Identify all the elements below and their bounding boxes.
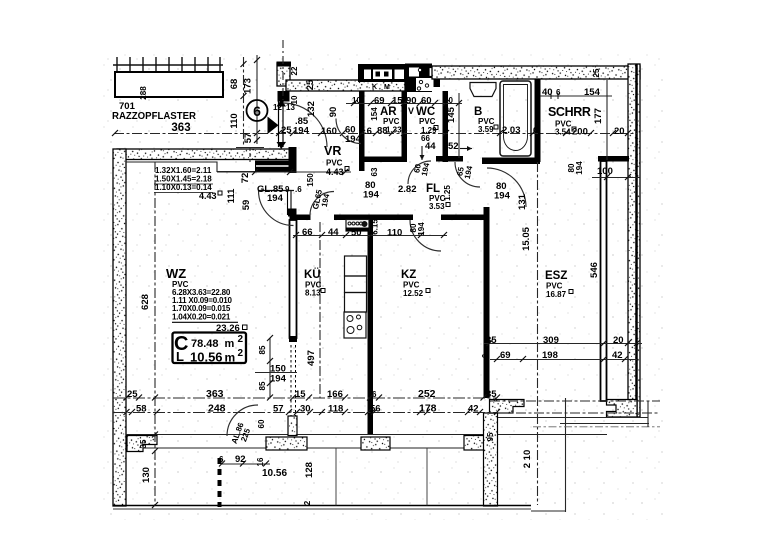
svg-text:35: 35 (486, 335, 497, 346)
svg-text:252: 252 (418, 388, 436, 400)
svg-text:110: 110 (387, 228, 402, 239)
svg-text:25: 25 (281, 125, 292, 136)
svg-text:3.53: 3.53 (429, 202, 445, 211)
dim chain y103 AR/WC (346, 103, 462, 105)
FIXTURES (344, 81, 531, 338)
VR dim y172 (217, 171, 351, 173)
svg-text:68: 68 (229, 79, 240, 90)
vert dim x320 KU (319, 222, 321, 398)
exterior wall left (113, 149, 126, 506)
svg-text:95: 95 (486, 432, 495, 441)
ESZ south pier right (607, 400, 638, 418)
svg-text:132: 132 (306, 101, 317, 117)
exterior wall north B/SCHRR (432, 66, 640, 79)
svg-text:10: 10 (352, 96, 361, 105)
door arc GL85 WZ (259, 191, 294, 226)
vert dim x270 WZ window (269, 338, 271, 398)
wall KZ north seg (441, 215, 490, 221)
svg-text:52: 52 (448, 141, 459, 152)
shaft block WC (405, 64, 432, 93)
svg-text:35: 35 (139, 439, 148, 448)
FL small dims arrows (421, 146, 423, 160)
svg-text:8.13: 8.13 (305, 289, 321, 298)
svg-text:194: 194 (494, 191, 511, 202)
svg-text:100: 100 (597, 166, 613, 177)
wall AR/WC (402, 91, 408, 162)
svg-text:44: 44 (328, 227, 339, 238)
svg-text:497: 497 (306, 350, 317, 366)
washbasin B (470, 83, 496, 97)
WZ window dim y372.5 (255, 372, 297, 374)
svg-text:16: 16 (256, 457, 265, 466)
svg-text:173: 173 (243, 78, 254, 94)
svg-text:m: m (225, 338, 235, 350)
svg-text:154: 154 (584, 87, 601, 98)
svg-text:194: 194 (575, 161, 584, 175)
svg-text:K M: K M (372, 84, 392, 91)
pier P1 (127, 436, 157, 452)
svg-text:628: 628 (140, 294, 151, 310)
svg-text:194: 194 (345, 134, 362, 145)
VR/WZ step thin lines (126, 162, 255, 172)
wall VR below GL85 (288, 191, 292, 215)
svg-text:6: 6 (481, 353, 490, 358)
svg-text:90: 90 (406, 96, 417, 107)
svg-text:2.03: 2.03 (502, 125, 521, 136)
svg-text:50: 50 (351, 228, 362, 239)
svg-text:63: 63 (370, 167, 379, 176)
svg-text:60: 60 (421, 96, 432, 107)
svg-text:6: 6 (444, 126, 449, 135)
svg-text:6: 6 (253, 103, 261, 119)
svg-text:15.05: 15.05 (521, 226, 532, 250)
svg-text:150: 150 (306, 173, 315, 187)
svg-text:4.43: 4.43 (199, 191, 217, 201)
exterior wall WZ north (117, 149, 291, 160)
svg-text:2: 2 (303, 500, 312, 505)
vert dim x155 left (154, 162, 156, 505)
entrance door leaf (279, 102, 284, 148)
GL85 door leaf (258, 190, 294, 192)
svg-text:VR: VR (324, 144, 341, 158)
svg-text:72: 72 (240, 173, 251, 184)
ARCS (227, 100, 526, 437)
svg-text:15: 15 (295, 389, 306, 400)
svg-text:248: 248 (208, 403, 226, 415)
loggia dividers (335, 448, 337, 506)
svg-text:3.54: 3.54 (555, 128, 571, 137)
svg-text:309: 309 (543, 335, 559, 346)
svg-text:V: V (408, 106, 414, 116)
svg-text:194: 194 (270, 374, 287, 385)
C/L area box (173, 333, 247, 364)
svg-text:.6: .6 (364, 126, 372, 137)
svg-text:78.48: 78.48 (191, 338, 219, 350)
svg-text:57: 57 (273, 404, 284, 415)
cooktop (344, 312, 366, 338)
svg-text:110: 110 (229, 113, 240, 128)
dim chain y235 KU (293, 235, 447, 237)
entrance jog wall vertical (277, 63, 290, 86)
pier P4 (464, 436, 497, 451)
terrace railing (113, 57, 223, 72)
svg-text:160: 160 (321, 126, 337, 137)
loggia dashed partition (218, 458, 222, 507)
vert dim x243 (68/110) (243, 57, 245, 148)
svg-text:10.56: 10.56 (262, 468, 287, 479)
svg-text:6: 6 (219, 455, 224, 464)
wall WC right (443, 91, 449, 162)
door post loggia (288, 416, 297, 436)
svg-text:25: 25 (305, 79, 316, 90)
svg-text:20: 20 (614, 126, 625, 137)
wall KU/KZ (368, 220, 374, 435)
ESZ south pier left (490, 400, 525, 414)
svg-text:69: 69 (500, 350, 511, 361)
svg-text:128: 128 (304, 462, 315, 478)
svg-text:12: 12 (273, 103, 282, 112)
svg-text:200: 200 (572, 127, 588, 138)
svg-text:15: 15 (392, 96, 403, 107)
svg-text:92: 92 (235, 454, 246, 465)
svg-text:58: 58 (136, 404, 147, 415)
kitchen cabinet 3 (345, 293, 367, 313)
svg-text:66: 66 (302, 227, 313, 238)
svg-text:35: 35 (486, 389, 497, 400)
svg-text:6: 6 (372, 390, 377, 399)
door arc loggia AL86 (227, 405, 258, 436)
svg-text:ESZ: ESZ (545, 270, 567, 282)
svg-text:90: 90 (328, 107, 339, 118)
svg-text:194: 194 (293, 126, 310, 137)
svg-text:40: 40 (542, 87, 553, 98)
svg-text:154: 154 (370, 107, 379, 121)
svg-text:2: 2 (238, 334, 244, 345)
svg-text:85: 85 (258, 381, 267, 390)
svg-text:22: 22 (290, 66, 299, 75)
svg-text:130: 130 (141, 467, 152, 483)
door arc GL65 VR-FL (310, 192, 334, 216)
svg-text:363: 363 (171, 122, 190, 134)
svg-text:10.56: 10.56 (190, 350, 223, 365)
bathtub B (500, 81, 531, 156)
svg-text:3.59: 3.59 (478, 125, 494, 134)
wall WZ/KU glazed partition (290, 220, 297, 338)
svg-text:546: 546 (589, 262, 600, 278)
svg-text:6: 6 (556, 88, 561, 97)
svg-text:1.33: 1.33 (386, 126, 402, 135)
svg-text:m: m (225, 351, 236, 365)
terrace planter box (115, 72, 223, 97)
exterior wall right (628, 64, 640, 417)
svg-text:25: 25 (127, 389, 138, 400)
svg-text:2 10: 2 10 (522, 450, 533, 469)
entrance jog wall horizontal K M band (286, 80, 405, 91)
svg-text:4.43: 4.43 (326, 167, 344, 177)
door arc WC (408, 161, 431, 184)
svg-text:SCHRR: SCHRR (548, 105, 591, 119)
svg-text:PVC: PVC (419, 117, 436, 126)
svg-text:59: 59 (241, 200, 252, 211)
door arc KZ (410, 220, 441, 251)
door arc ESZ (487, 168, 526, 207)
svg-text:25: 25 (592, 68, 601, 77)
svg-text:194: 194 (267, 193, 284, 204)
vert line ESZ axis x537.5 (537, 162, 539, 505)
wall ESZ right (601, 161, 607, 401)
svg-text:.6: .6 (295, 185, 302, 194)
entry axis dash (282, 40, 284, 100)
svg-text:166: 166 (327, 389, 343, 400)
loggia bottom edge (113, 505, 531, 507)
WZ/VR window band (255, 161, 290, 173)
THINLINES (112, 40, 660, 512)
vert dim x257 (173/57) (256, 55, 258, 144)
svg-text:6.15: 6.15 (371, 219, 380, 235)
WZ/VR corner blob (289, 147, 297, 173)
vert line x565.5 bottom right (565, 398, 567, 512)
svg-text:KZ: KZ (401, 269, 416, 281)
svg-text:42: 42 (468, 404, 479, 415)
svg-text:42: 42 (612, 350, 623, 361)
loggia right wall (484, 413, 498, 506)
svg-text:KÜ: KÜ (304, 268, 321, 281)
svg-text:194: 194 (417, 222, 426, 236)
svg-text:RAZZOPFLASTER: RAZZOPFLASTER (112, 111, 197, 122)
svg-text:198: 198 (542, 350, 558, 361)
dim chain y133 main (114, 133, 637, 135)
svg-text:20: 20 (613, 335, 624, 346)
svg-text:56: 56 (370, 404, 381, 415)
svg-text:2: 2 (238, 348, 244, 359)
ESZ dim y343.5 (484, 343, 642, 345)
terrace bottom lines (490, 400, 660, 402)
entrance swing arc (283, 103, 327, 147)
entrance arrow (268, 117, 279, 135)
svg-text:1.04X0.20=0.021: 1.04X0.20=0.021 (172, 312, 231, 321)
kitchen cabinet 2 (345, 276, 367, 293)
kitchen cabinet 1 (345, 256, 367, 276)
svg-text:288: 288 (139, 86, 148, 100)
svg-text:145: 145 (446, 106, 457, 123)
svg-text:10: 10 (290, 95, 299, 104)
window wall WZ/KZ south lines (126, 434, 607, 436)
svg-text:111: 111 (226, 188, 237, 204)
dim 100 line y177.5 (592, 177, 640, 179)
WALLS (113, 57, 640, 509)
svg-text:30: 30 (300, 404, 311, 415)
svg-text:85: 85 (258, 345, 267, 354)
svg-text:178: 178 (419, 403, 437, 415)
wall B south (482, 158, 540, 165)
svg-text:1.25: 1.25 (443, 185, 452, 201)
svg-text:194: 194 (363, 190, 380, 201)
wall FL north under WC-B (436, 156, 463, 162)
svg-text:177: 177 (593, 108, 604, 124)
svg-text:L: L (176, 349, 184, 364)
entrance circle 6 (247, 100, 268, 121)
dim line 363 ticks (112, 130, 631, 136)
pier P2 (266, 437, 307, 450)
bottom dim row2 y412.5 (113, 412, 497, 414)
loggia dim y464 (222, 463, 270, 465)
wall KU north seg1 (290, 215, 311, 221)
svg-text:12.52: 12.52 (403, 289, 424, 298)
svg-text:118: 118 (328, 404, 343, 415)
svg-text:363: 363 (206, 388, 224, 400)
ESZ dim y359 (490, 359, 637, 361)
svg-text:60: 60 (257, 419, 266, 428)
wall B/SCHRR (535, 79, 541, 162)
pier P3 (361, 437, 390, 450)
shaft block left (358, 64, 408, 82)
wall KU north seg2 (334, 215, 413, 221)
wall AR left (359, 91, 365, 171)
wall FL north under AR (364, 157, 402, 163)
svg-text:69: 69 (374, 96, 385, 107)
wall SCHRR south stub (598, 156, 629, 162)
door arc AR (336, 119, 361, 144)
svg-text:44: 44 (425, 141, 436, 152)
svg-text:57: 57 (243, 133, 254, 144)
door arc B (455, 162, 480, 187)
dim chain y96 SCHRR 40-6-154 (540, 95, 612, 97)
bottom dim row1 y398 (113, 397, 497, 399)
svg-text:2.82: 2.82 (398, 184, 417, 195)
svg-text:10: 10 (444, 96, 453, 105)
vert dim x607 (177) (606, 80, 608, 160)
svg-text:16.87: 16.87 (546, 290, 567, 299)
svg-text:6: 6 (533, 126, 538, 135)
kitchen sink (346, 220, 369, 232)
wall ESZ left (484, 207, 490, 398)
svg-text:WZ: WZ (166, 266, 186, 281)
svg-text:131: 131 (517, 193, 528, 210)
vert dim x459 (145) (458, 93, 460, 158)
svg-text:9: 9 (285, 185, 290, 194)
